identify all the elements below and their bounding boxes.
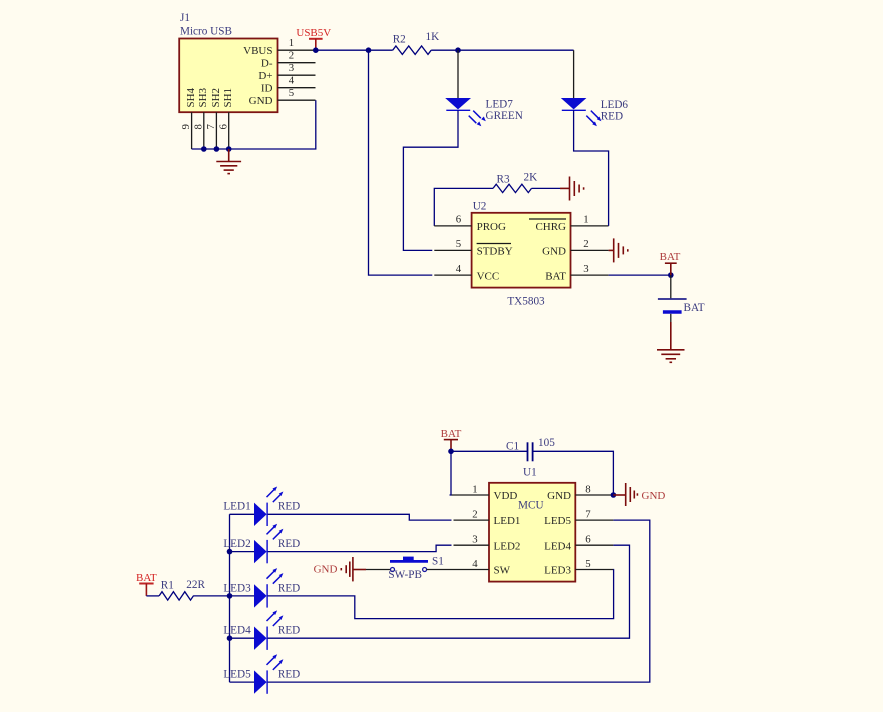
power port USB5V bbox=[296, 27, 331, 50]
wire BAT to R1 bbox=[146, 595, 159, 597]
LED7 bbox=[445, 98, 523, 126]
U1 pin 8 bbox=[575, 484, 613, 496]
connector J1 bbox=[179, 12, 277, 112]
svg-text:1: 1 bbox=[289, 37, 294, 49]
ground SW-PB bbox=[341, 557, 366, 581]
svg-text:RED: RED bbox=[278, 501, 300, 513]
wire BAT to VDD bbox=[450, 451, 452, 495]
svg-text:CHRG: CHRG bbox=[535, 221, 566, 233]
svg-text:LED5: LED5 bbox=[544, 515, 571, 527]
wire R3 to ground bbox=[532, 187, 561, 189]
svg-text:1: 1 bbox=[472, 484, 477, 496]
svg-text:STDBY: STDBY bbox=[477, 246, 513, 258]
node VCC branch junction bbox=[366, 47, 372, 53]
svg-text:RED: RED bbox=[278, 669, 300, 681]
svg-text:4: 4 bbox=[472, 558, 478, 570]
svg-text:SH2: SH2 bbox=[210, 88, 222, 108]
svg-text:SH1: SH1 bbox=[222, 88, 234, 108]
node LED7 branch junction bbox=[455, 47, 461, 53]
svg-text:LED3: LED3 bbox=[544, 565, 571, 577]
U2 pin 4 bbox=[434, 263, 471, 275]
svg-text:USB5V: USB5V bbox=[296, 27, 331, 39]
switch S1 SW-PB bbox=[388, 556, 443, 581]
svg-text:4: 4 bbox=[289, 75, 295, 87]
svg-text:6: 6 bbox=[456, 214, 462, 226]
U1 pin 3 bbox=[454, 534, 490, 546]
svg-text:105: 105 bbox=[538, 437, 555, 449]
wire LED6 cathode to CHRG bbox=[574, 110, 609, 226]
svg-text:2: 2 bbox=[583, 238, 588, 250]
svg-text:GND: GND bbox=[314, 564, 338, 576]
wire VCC feed bbox=[369, 50, 433, 275]
svg-text:3: 3 bbox=[583, 263, 588, 275]
svg-text:2: 2 bbox=[289, 50, 294, 62]
svg-text:RED: RED bbox=[278, 538, 300, 550]
U2 pin 3 bbox=[571, 263, 609, 275]
resistor R2 1K bbox=[393, 31, 439, 54]
U2 pin 2 bbox=[571, 238, 609, 250]
node junction pin7 bbox=[214, 146, 220, 152]
svg-text:PROG: PROG bbox=[477, 221, 506, 233]
LED4 bbox=[223, 610, 300, 650]
U1 pin 5 bbox=[575, 558, 613, 570]
svg-text:ID: ID bbox=[261, 83, 273, 95]
svg-text:R3: R3 bbox=[497, 173, 510, 185]
LED3 bbox=[223, 568, 300, 608]
svg-text:2K: 2K bbox=[524, 172, 538, 184]
svg-text:GND: GND bbox=[542, 246, 566, 258]
wire R1 to LED bus bbox=[193, 595, 229, 597]
svg-text:5: 5 bbox=[456, 238, 461, 250]
svg-text:TX5803: TX5803 bbox=[507, 296, 545, 308]
LED1 bbox=[223, 487, 300, 527]
svg-text:LED3: LED3 bbox=[223, 582, 251, 594]
J1 pin 9 bbox=[180, 112, 192, 149]
svg-text:GND: GND bbox=[249, 95, 273, 107]
wire C1 to GND net bbox=[533, 451, 614, 495]
ground battery bbox=[657, 322, 685, 362]
svg-text:1: 1 bbox=[583, 214, 588, 226]
node bus LED4 bbox=[227, 635, 233, 641]
svg-text:RED: RED bbox=[601, 111, 623, 123]
power port BAT top bbox=[660, 251, 681, 275]
svg-text:R2: R2 bbox=[393, 34, 406, 46]
U1 pin 2 bbox=[454, 509, 490, 521]
svg-text:8: 8 bbox=[192, 124, 204, 129]
svg-text:MCU: MCU bbox=[518, 500, 544, 512]
svg-text:GND: GND bbox=[642, 490, 666, 502]
svg-text:SH3: SH3 bbox=[197, 87, 209, 107]
svg-text:3: 3 bbox=[472, 534, 477, 546]
svg-text:LED1: LED1 bbox=[223, 501, 250, 513]
wire J1 ground bus bbox=[192, 100, 316, 149]
svg-text:22R: 22R bbox=[186, 579, 205, 591]
U2 pin 1 bbox=[571, 214, 609, 226]
svg-text:LED7: LED7 bbox=[486, 99, 514, 111]
node BAT junction bbox=[668, 272, 674, 278]
J1 pin 7 bbox=[205, 112, 217, 149]
svg-text:5: 5 bbox=[585, 558, 590, 570]
LED5 bbox=[223, 654, 300, 694]
svg-text:D-: D- bbox=[261, 58, 273, 70]
svg-text:7: 7 bbox=[205, 124, 217, 130]
svg-text:C1: C1 bbox=[506, 440, 519, 452]
U2 pin 6 bbox=[434, 214, 471, 226]
IC U2 TX5803 bbox=[472, 201, 571, 308]
svg-text:BAT: BAT bbox=[684, 302, 705, 314]
wire LED4 net (pin 6) bbox=[267, 545, 629, 638]
node BAT junction bottom bbox=[448, 449, 454, 455]
svg-text:Micro USB: Micro USB bbox=[180, 25, 232, 37]
svg-text:LED4: LED4 bbox=[544, 540, 571, 552]
wire LED7 anode bbox=[457, 50, 459, 98]
svg-text:2: 2 bbox=[472, 509, 477, 521]
svg-text:1K: 1K bbox=[426, 31, 440, 43]
U1 pin 7 bbox=[575, 509, 613, 521]
svg-text:GREEN: GREEN bbox=[486, 110, 523, 122]
node GND junction bbox=[611, 492, 617, 498]
capacitor C1 105 bbox=[506, 437, 555, 461]
svg-text:VCC: VCC bbox=[477, 270, 500, 282]
svg-text:LED1: LED1 bbox=[494, 515, 521, 527]
wire ground to switch bbox=[366, 569, 391, 571]
svg-text:LED5: LED5 bbox=[223, 669, 251, 681]
J1 pin 2 bbox=[278, 50, 316, 63]
resistor R3 2K bbox=[493, 172, 537, 193]
svg-text:D+: D+ bbox=[258, 70, 272, 82]
U1 pin 6 bbox=[575, 534, 613, 546]
wire LED2 net (pin 3) bbox=[267, 545, 451, 551]
LED6 bbox=[561, 98, 629, 126]
U2 pin 5 bbox=[434, 238, 471, 250]
IC U1 MCU bbox=[489, 466, 575, 581]
J1 pin 4 bbox=[278, 75, 316, 88]
svg-text:BAT: BAT bbox=[660, 251, 681, 263]
node junction pin6 bbox=[226, 146, 232, 152]
wire LED3 net (pin 5) bbox=[267, 570, 613, 619]
J1 pin 1 bbox=[278, 37, 316, 50]
svg-text:RED: RED bbox=[278, 582, 300, 594]
svg-text:LED2: LED2 bbox=[494, 540, 521, 552]
svg-text:BAT: BAT bbox=[545, 270, 566, 282]
svg-text:R1: R1 bbox=[161, 580, 174, 592]
svg-text:SW: SW bbox=[494, 565, 511, 577]
svg-text:4: 4 bbox=[456, 263, 462, 275]
svg-text:SH4: SH4 bbox=[185, 87, 197, 107]
ground R3 bbox=[560, 177, 584, 201]
wire U2 BAT net bbox=[609, 274, 671, 276]
svg-text:SW-PB: SW-PB bbox=[388, 569, 422, 581]
wire switch to SW pin bbox=[427, 569, 454, 571]
LED2 bbox=[223, 524, 300, 564]
wire after R2 bbox=[431, 49, 573, 51]
svg-text:J1: J1 bbox=[180, 12, 190, 24]
svg-text:U2: U2 bbox=[473, 201, 487, 213]
node USB5V junction bbox=[313, 47, 319, 53]
ground J1 bbox=[216, 149, 241, 174]
svg-text:U1: U1 bbox=[523, 466, 537, 478]
wire LED1 net (pin 2) bbox=[267, 514, 451, 520]
U1 pin 4 bbox=[454, 558, 490, 570]
svg-text:VDD: VDD bbox=[494, 490, 518, 502]
svg-text:6: 6 bbox=[217, 124, 229, 130]
resistor R1 22R bbox=[159, 579, 205, 600]
wire LED7 cathode to STDBY bbox=[403, 110, 458, 250]
svg-text:BAT: BAT bbox=[136, 572, 157, 584]
ground U2 GND pin bbox=[609, 238, 628, 262]
svg-text:6: 6 bbox=[585, 534, 591, 546]
J1 pin 5 bbox=[278, 87, 316, 100]
wire USB5V net bbox=[316, 49, 393, 51]
svg-text:S1: S1 bbox=[432, 556, 444, 568]
svg-text:GND: GND bbox=[547, 490, 571, 502]
ground U1 GND pin bbox=[613, 483, 637, 506]
wire BAT to C1 bbox=[451, 450, 528, 452]
svg-text:LED2: LED2 bbox=[223, 538, 250, 550]
wire LED6 anode bbox=[573, 50, 575, 98]
node bus LED2 bbox=[227, 549, 233, 555]
svg-text:9: 9 bbox=[180, 124, 192, 129]
power port BAT (U1 supply) bbox=[441, 428, 462, 451]
svg-text:3: 3 bbox=[289, 62, 294, 74]
power port BAT (R1) bbox=[136, 572, 157, 596]
svg-text:VBUS: VBUS bbox=[243, 45, 272, 57]
J1 pin 6 bbox=[217, 112, 229, 149]
battery BAT bbox=[658, 275, 705, 322]
J1 pin 8 bbox=[192, 112, 204, 149]
node bus LED3 bbox=[227, 593, 233, 599]
J1 pin 3 bbox=[278, 62, 316, 75]
wire LED anode bus bbox=[229, 514, 231, 682]
U1 pin 1 bbox=[452, 484, 490, 496]
svg-text:7: 7 bbox=[585, 509, 591, 521]
svg-text:8: 8 bbox=[585, 484, 590, 496]
wire R3 loop bbox=[434, 188, 493, 226]
node junction pin8 bbox=[201, 146, 207, 152]
svg-text:5: 5 bbox=[289, 87, 294, 99]
svg-text:LED6: LED6 bbox=[601, 99, 629, 111]
svg-text:RED: RED bbox=[278, 625, 300, 637]
svg-text:BAT: BAT bbox=[441, 428, 462, 440]
svg-text:LED4: LED4 bbox=[223, 625, 251, 637]
wire LED5 net (pin 7) bbox=[267, 520, 650, 682]
